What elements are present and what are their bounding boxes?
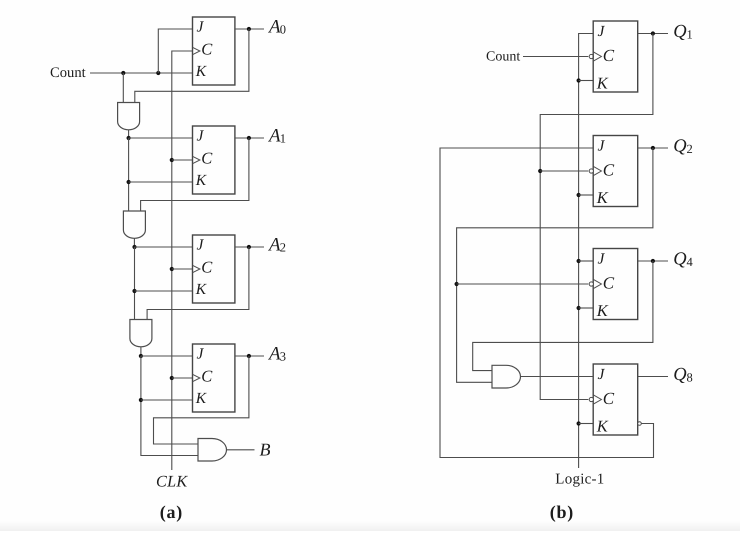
wire Q1 clock chain to C of Q2 and C of Q8 xyxy=(540,34,653,400)
wire rail stub to K of Q8 xyxy=(579,423,594,425)
junction dot chain2 at J of FF A1 xyxy=(127,136,131,140)
svg-text:J: J xyxy=(197,128,205,145)
wire G4 output xyxy=(227,449,255,451)
flip-flop Q8 box xyxy=(593,364,638,435)
wire CLK stub to C of FF A3 xyxy=(172,377,193,379)
junction dot CLK to C of FF A2 xyxy=(170,267,174,271)
AND gate G2 xyxy=(123,211,145,238)
wire A0 output xyxy=(235,28,264,30)
flip-flop FF2 (A1) box xyxy=(193,126,235,194)
svg-text:1: 1 xyxy=(280,132,286,146)
junction dot chain2 at K of FF A1 xyxy=(127,180,131,184)
Logic-1 rail xyxy=(579,34,594,469)
junction dot A0 output xyxy=(247,27,251,31)
Q2 clock triangle xyxy=(593,166,601,175)
wire A3 feedback to G4 upper input xyxy=(154,356,249,444)
svg-text:C: C xyxy=(201,149,213,168)
bubble on C of Q8 xyxy=(589,397,593,401)
junction dot CLK to C of FF A1 xyxy=(170,158,174,162)
svg-text:(b): (b) xyxy=(550,502,574,522)
junction dot rail at K of Q4 xyxy=(577,306,581,310)
flip-flop Q1 box xyxy=(593,21,638,92)
wire Q2 output xyxy=(638,147,668,149)
flip-flop FF4 (A3) box xyxy=(193,344,235,412)
wire chain2 to J of FF A1 xyxy=(129,137,193,139)
svg-text:Logic-1: Logic-1 xyxy=(555,472,604,488)
svg-text:0: 0 xyxy=(280,23,286,37)
FF1 clock triangle xyxy=(193,47,200,54)
flip-flop FF1 (A0) box xyxy=(193,17,235,85)
wire Count to K of FF A0 xyxy=(90,72,193,74)
svg-text:4: 4 xyxy=(687,255,694,269)
svg-text:C: C xyxy=(201,258,213,277)
junction dot A2 output xyxy=(247,245,251,249)
wire G5 output to J of Q8 xyxy=(521,376,594,378)
junction dot Q4 output xyxy=(651,259,655,263)
junction dot Count/J1 branch xyxy=(156,71,160,75)
junction dot clock chain at C of Q2 xyxy=(538,169,542,173)
svg-text:Q: Q xyxy=(673,137,687,157)
junction dot Count/gate1 branch xyxy=(121,71,125,75)
junction dot Q2 output xyxy=(651,146,655,150)
svg-text:J: J xyxy=(598,137,606,154)
svg-text:(a): (a) xyxy=(160,502,183,522)
svg-text:C: C xyxy=(603,389,615,408)
wire chain3 to J of FF A2 xyxy=(135,246,193,248)
Q8 clock triangle xyxy=(593,395,601,404)
junction dot Q2 chain at C of Q4 xyxy=(455,282,459,286)
wire rail stub to J of Q4 xyxy=(579,260,594,262)
svg-text:Count: Count xyxy=(50,65,86,81)
junction dot chain3 at K of FF A2 xyxy=(132,289,136,293)
svg-text:K: K xyxy=(596,301,609,320)
wire A2 output xyxy=(235,246,264,248)
svg-text:J: J xyxy=(197,346,205,363)
wire rail stub to K of Q2 xyxy=(579,194,594,196)
svg-text:Q: Q xyxy=(673,250,687,270)
junction dot CLK to C of FF A3 xyxy=(170,376,174,380)
svg-text:J: J xyxy=(197,19,205,36)
wire CLK stub to C of FF A2 xyxy=(172,268,193,270)
AND gate G3 xyxy=(130,320,152,347)
wire chain4 vertical down to AND4 lower input xyxy=(141,356,198,456)
svg-text:2: 2 xyxy=(687,142,693,156)
wire Q4 output xyxy=(638,260,668,262)
svg-text:C: C xyxy=(603,46,615,65)
svg-text:B: B xyxy=(260,440,271,460)
wire Q4 feedback to AND gate upper input xyxy=(473,261,653,371)
bubble on C of Q1 xyxy=(589,54,593,58)
wire chain4 to J of FF A3 xyxy=(141,355,193,357)
FF3 clock triangle xyxy=(193,265,200,272)
svg-text:1: 1 xyxy=(687,27,693,41)
svg-text:Count: Count xyxy=(486,50,520,65)
svg-text:J: J xyxy=(598,23,606,40)
svg-text:C: C xyxy=(603,161,615,180)
wire clock chain stub to C of Q2 xyxy=(540,170,588,172)
wire Q8-bar feedback to J of Q2 xyxy=(440,148,654,458)
wire chain3 vertical xyxy=(134,247,136,320)
svg-text:C: C xyxy=(603,274,615,293)
wire A0 feedback to G1 right input xyxy=(135,29,249,103)
wire chain2 vertical J to K xyxy=(128,138,130,211)
AND gate G4 (output B) xyxy=(198,439,227,462)
bubble on C of Q2 xyxy=(589,169,593,173)
bubble Q8 complement output xyxy=(638,422,642,426)
wire G2 output to chain node 3 xyxy=(133,238,135,247)
wire A1 output xyxy=(235,137,264,139)
svg-text:J: J xyxy=(598,250,606,267)
wire Count branch down to AND1 left input xyxy=(122,73,124,103)
wire Q2 chain stub to C of Q4 xyxy=(457,283,589,285)
wire A1 feedback to G2 right input xyxy=(141,138,249,211)
junction dot Q1 output xyxy=(651,31,655,35)
svg-text:J: J xyxy=(598,366,606,383)
wire G3 output to chain node 4 xyxy=(140,347,142,356)
Q1 clock triangle xyxy=(593,52,601,61)
Q4 clock triangle xyxy=(593,279,601,288)
junction dot rail at J of Q4 xyxy=(577,259,581,263)
svg-text:C: C xyxy=(201,40,213,59)
svg-text:K: K xyxy=(596,74,609,93)
wire Count to C of Q1 xyxy=(523,56,588,58)
junction dot chain3 at J of FF A2 xyxy=(132,245,136,249)
FF4 clock triangle xyxy=(193,374,200,381)
svg-text:K: K xyxy=(596,188,609,207)
svg-text:J: J xyxy=(197,237,205,254)
svg-text:Q: Q xyxy=(673,365,687,385)
svg-text:CLK: CLK xyxy=(156,473,188,491)
junction dot A3 output xyxy=(247,354,251,358)
flip-flop Q4 box xyxy=(593,249,638,320)
flip-flop Q2 box xyxy=(593,136,638,207)
FF2 clock triangle xyxy=(193,156,200,163)
junction dot chain4 at K of FF A3 xyxy=(139,398,143,402)
wire Q1 output xyxy=(638,33,668,35)
svg-text:C: C xyxy=(201,367,213,386)
wire Count branch up to J of FF A0 xyxy=(158,29,192,73)
svg-text:Q: Q xyxy=(673,22,687,42)
bubble on C of Q4 xyxy=(589,282,593,286)
wire Q2 chain to C of Q4 and AND gate lower input xyxy=(457,148,653,382)
wire rail stub to K of Q4 xyxy=(579,307,594,309)
svg-text:2: 2 xyxy=(280,241,286,255)
junction dot rail at K of Q8 xyxy=(577,421,581,425)
wire Q8 output xyxy=(638,376,668,378)
svg-text:3: 3 xyxy=(280,350,286,364)
wire chain3 to K of FF A2 xyxy=(135,290,193,292)
AND gate G5 (b) xyxy=(492,365,521,388)
svg-text:8: 8 xyxy=(687,370,693,384)
wire chain2 to K of FF A1 xyxy=(129,181,193,183)
wire A3 output xyxy=(235,355,264,357)
svg-text:K: K xyxy=(195,281,207,298)
AND gate G1 xyxy=(118,103,140,130)
junction dot chain4 at J of FF A3 xyxy=(139,354,143,358)
wire G1 output to J/K chain node 2 xyxy=(128,130,130,138)
svg-text:K: K xyxy=(195,390,207,407)
wire CLK stub to C of FF A1 xyxy=(172,159,193,161)
svg-text:K: K xyxy=(596,417,609,436)
junction dot rail at K of Q2 xyxy=(577,193,581,197)
flip-flop FF3 (A2) box xyxy=(193,235,235,303)
wire chain4 to K of FF A3 xyxy=(141,399,193,401)
wire A2 feedback to G3 right input xyxy=(147,247,249,320)
svg-text:K: K xyxy=(195,172,207,189)
svg-text:K: K xyxy=(195,63,207,80)
wire CLK rail (clock vertical) xyxy=(172,51,193,470)
junction dot A1 output xyxy=(247,136,251,140)
wire rail stub to K of Q1 xyxy=(579,80,594,82)
junction dot rail at K of Q1 xyxy=(577,78,581,82)
